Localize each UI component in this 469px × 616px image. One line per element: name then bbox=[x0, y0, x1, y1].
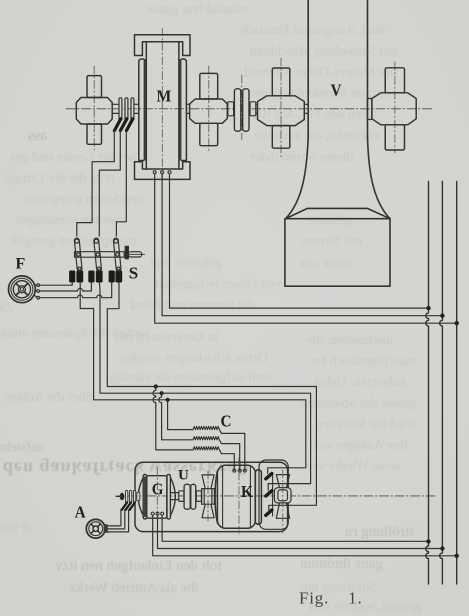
wire rotor brush 1 to switch blade 1 bbox=[77, 130, 115, 237]
wire node to coil row 2 bbox=[159, 393, 193, 440]
switch hinge contact 3 bbox=[109, 271, 115, 283]
shaft step V to bearing B4 bbox=[367, 99, 371, 120]
wire G terminal 1 to bus L1 bbox=[153, 515, 457, 556]
wire switch jaw 3 to K brush bottom bbox=[107, 283, 316, 511]
wire M stator terminal 2 to bus L2 bbox=[162, 175, 442, 316]
node bus L1 stator bbox=[426, 306, 430, 310]
wire F to hinge contact 3 bbox=[40, 283, 112, 298]
svg-text:M: M bbox=[156, 86, 171, 106]
bearing B1 pedestal bbox=[76, 76, 112, 145]
bus L3 bbox=[456, 182, 458, 585]
svg-text:U: U bbox=[178, 468, 189, 484]
bearing B4 pedestal bbox=[372, 68, 416, 150]
vertical centerline bearing B2 bbox=[208, 66, 210, 152]
bus L2 bbox=[440, 182, 443, 585]
wire switch jaw 2 to K brush middle bbox=[99, 283, 310, 491]
wire coil row 3 to K terminal 1 bbox=[219, 450, 234, 471]
compensator coil C row 3 bbox=[193, 447, 219, 450]
node bus L2 stator bbox=[440, 314, 444, 318]
wire G terminal 2 to bus L2 bbox=[158, 515, 443, 549]
label A bbox=[75, 504, 86, 522]
label V bbox=[331, 82, 342, 100]
shaft segment bearing B3 to V bbox=[304, 104, 308, 113]
switch S cross bar bbox=[75, 252, 125, 258]
shaft segment bearing B1 to slip rings bbox=[112, 104, 119, 113]
generator G body bbox=[138, 475, 175, 520]
label C bbox=[221, 413, 232, 431]
wire F to hinge contact 2 bbox=[40, 283, 92, 291]
compensator coil C row 1 bbox=[193, 426, 219, 429]
label U bbox=[178, 468, 189, 484]
shaft step right of coupling bbox=[250, 102, 258, 116]
svg-text:K: K bbox=[241, 483, 253, 501]
machine M induction motor bbox=[135, 35, 191, 180]
switch S blade 3 bbox=[113, 238, 121, 271]
flywheel fan left bbox=[202, 475, 215, 518]
G slip rings bbox=[116, 491, 140, 503]
wire F to hinge contact 1 bbox=[40, 283, 73, 286]
wire M stator terminal 3 to bus L3 bbox=[170, 175, 429, 309]
wire node to coil row 1 bbox=[168, 400, 193, 430]
svg-text:V: V bbox=[331, 82, 342, 100]
flywheel fan right with hub bbox=[274, 475, 291, 519]
vertical centerline machine M bbox=[161, 28, 163, 182]
svg-text:S: S bbox=[129, 264, 138, 283]
commutator machine K body bbox=[215, 465, 261, 528]
shaft step G to coupling U bbox=[170, 491, 184, 502]
G terminals bbox=[151, 512, 163, 515]
node wire2 to compensator C feed 2 bbox=[160, 391, 164, 395]
slip rings on M rotor shaft bbox=[119, 98, 139, 121]
bearing B3 pedestal bbox=[258, 68, 305, 148]
wire coil row 1 to K terminal 3 bbox=[219, 430, 244, 471]
vertical centerline K bbox=[238, 458, 240, 534]
node bus L3 stator bbox=[455, 321, 459, 325]
brush top on K commutator bbox=[266, 474, 272, 479]
switch hinge contact 1 bbox=[69, 271, 75, 283]
vertical centerline commutator bbox=[282, 470, 284, 533]
wire M stator terminal 1 to bus L1 bbox=[155, 175, 457, 324]
compensator coil C row 2 bbox=[193, 437, 219, 440]
node bus L1 generator bbox=[426, 539, 430, 543]
K terminals bbox=[233, 469, 247, 472]
wire G terminal 3 to bus L3 bbox=[162, 515, 428, 541]
svg-text:F: F bbox=[16, 256, 26, 273]
switch hinge contact 2 bbox=[88, 271, 94, 283]
shaft segment M to bearing B2 bbox=[186, 104, 189, 113]
switch jaw contact 3 bbox=[115, 271, 122, 283]
brush middle on K commutator bbox=[266, 491, 272, 496]
vertical centerline coupling K1 bbox=[241, 75, 243, 140]
label G bbox=[152, 481, 164, 499]
wire coil row 2 to K terminal 2 bbox=[219, 440, 239, 471]
switch jaw contact 1 bbox=[76, 271, 83, 283]
label S bbox=[129, 264, 138, 283]
label F bbox=[16, 256, 26, 273]
wire A to G brush 2 bbox=[108, 510, 125, 529]
bearing B2 pedestal bbox=[190, 73, 228, 145]
frequency changer F bbox=[9, 276, 40, 303]
M stator terminals bbox=[153, 171, 171, 174]
shaft step left of coupling bbox=[227, 102, 233, 116]
brush gear frame right of K bbox=[259, 460, 288, 529]
svg-text:C: C bbox=[221, 413, 232, 431]
coupling U flange discs bbox=[184, 484, 196, 509]
vertical centerline bearing B1 bbox=[93, 66, 95, 150]
svg-text:A: A bbox=[75, 504, 86, 522]
bus L1 bbox=[426, 182, 429, 585]
wire node to coil row 3 bbox=[153, 387, 193, 450]
brush bottom on K commutator bbox=[266, 510, 272, 515]
exciter A bbox=[86, 519, 108, 538]
wire rotor brush 2 to switch blade 2 bbox=[99, 130, 120, 236]
shaft step U to flywheel bbox=[196, 491, 201, 502]
switch S handle bbox=[124, 246, 145, 258]
vertical centerline G bbox=[156, 468, 158, 521]
switch jaw contact 2 bbox=[96, 271, 103, 283]
brushes on G slip rings bbox=[122, 503, 135, 510]
node wire3 to compensator C feed 1 bbox=[154, 384, 158, 388]
label K bbox=[241, 483, 253, 501]
caption Fig. 1. bbox=[299, 589, 363, 608]
shaft centerline top drivetrain bbox=[66, 108, 433, 110]
G shaft end cap bbox=[120, 493, 125, 501]
wire A to G brush 3 bbox=[108, 510, 129, 532]
label M bbox=[156, 86, 171, 106]
brushes on M slip rings bbox=[114, 119, 132, 131]
vertical centerline bearing B4 bbox=[394, 62, 396, 153]
node bus L2 generator bbox=[440, 546, 444, 550]
coupling flange discs bbox=[234, 89, 249, 131]
wire rotor brush 3 to switch blade 3 bbox=[116, 131, 126, 236]
switch S blade 1 bbox=[74, 238, 82, 271]
node bus L3 generator bbox=[455, 554, 459, 558]
K commutator brush rail bbox=[272, 473, 274, 517]
vertical centerline flywheel bbox=[207, 471, 209, 521]
node wire1 to compensator C feed 3 bbox=[166, 398, 170, 402]
wire A to G brush 1 bbox=[108, 510, 121, 526]
vertical centerline bearing B3 bbox=[280, 58, 282, 157]
wire switch jaw 1 to K brush top bbox=[80, 283, 306, 474]
shaft centerline bottom drivetrain bbox=[116, 495, 437, 497]
machine V turbine column bbox=[285, 0, 390, 286]
svg-text:Fig. 1.: Fig. 1. bbox=[299, 589, 363, 608]
svg-text:G: G bbox=[152, 481, 164, 499]
baseplate of motor-generator set bbox=[135, 462, 288, 531]
switch S blade 2 bbox=[94, 238, 102, 271]
